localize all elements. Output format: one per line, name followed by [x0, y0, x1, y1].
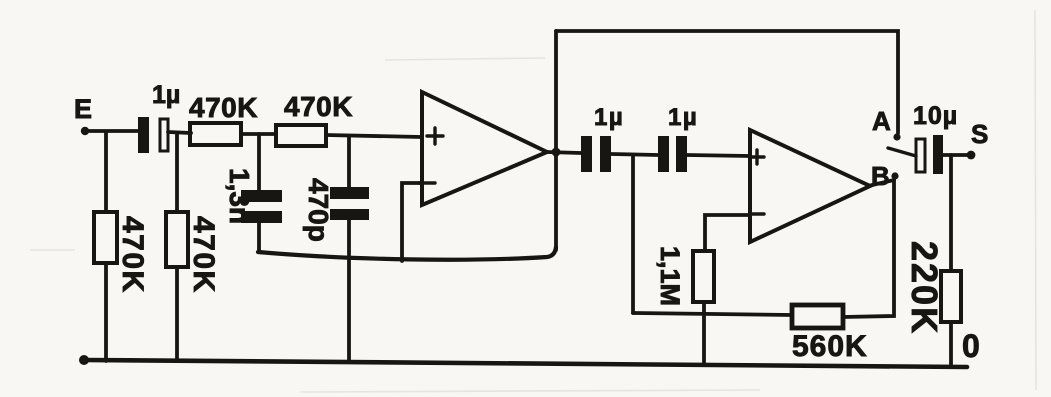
capacitor C5 1u — [658, 136, 687, 172]
svg-text:S: S — [971, 119, 988, 149]
label 220K for R7 (rotated) — [904, 241, 945, 335]
label 470K for R3 — [189, 92, 258, 123]
svg-text:1,1M: 1,1M — [655, 246, 685, 306]
wire U2 output to node B — [868, 180, 894, 186]
node B — [891, 172, 898, 179]
wire R7 to ground rail — [949, 322, 953, 366]
label 10u for C6 — [913, 102, 958, 130]
label 470p for C3 (rotated) — [303, 178, 334, 242]
label 470K for R4 — [284, 91, 353, 122]
wire junction down to R1 — [104, 132, 108, 212]
ground rail — [84, 360, 967, 367]
wire junction down to feedback line — [631, 155, 635, 313]
label 470K for R1 (rotated) — [116, 216, 149, 294]
svg-text:1µ: 1µ — [668, 104, 698, 131]
switch lever S1 — [888, 148, 916, 156]
capacitor C1 1u (input electrolytic) — [138, 117, 168, 153]
capacitor C3 470p — [330, 187, 369, 220]
wire C2 to feedback line — [257, 223, 261, 252]
node U1 output — [552, 148, 561, 157]
wire C1 to R3, junction at x=177 — [168, 132, 191, 133]
svg-text:B: B — [871, 161, 890, 191]
wire junction down to R2 — [175, 133, 179, 212]
wire R4 to op-amp U1 + input, junction at x=349 — [326, 135, 422, 137]
wire junction down to C3 — [347, 136, 351, 187]
wire C5 to op-amp U2 + input — [687, 155, 750, 156]
resistor R3 470K (first horizontal) — [190, 123, 241, 145]
svg-text:220K: 220K — [904, 241, 945, 335]
wire junction down to C2 — [257, 134, 261, 190]
wire R2 to ground rail — [175, 267, 179, 361]
wire C4 to C5, junction at x=633 — [611, 154, 658, 155]
resistor R6 560K (feedback) — [792, 305, 843, 328]
svg-text:470K: 470K — [116, 216, 149, 294]
svg-text:A: A — [872, 106, 891, 136]
wire feedback node down to ground rail — [702, 314, 706, 363]
wire U1 output riser (feedback line up to output node and top rail) — [554, 31, 558, 250]
resistor R1 470K (vertical left) — [94, 212, 117, 263]
wire R3 to R4, junction at x=258 — [241, 132, 276, 136]
wire feedback line left segment to C4/C5 junction — [633, 313, 792, 315]
node A — [893, 133, 900, 140]
label 1,3n for C2 (rotated) — [224, 168, 255, 224]
wire top rail to switch point A — [556, 31, 898, 133]
svg-text:E: E — [74, 94, 92, 124]
op-amp U2 — [750, 130, 870, 242]
node E (input terminal) — [81, 127, 89, 135]
wire U2 minus input to R5 — [705, 215, 750, 251]
label 1u for C4 — [594, 104, 624, 131]
wire U1 feedback: minus input to feedback line — [402, 183, 422, 261]
wire E to C1 — [87, 129, 139, 133]
label 1,1M for R5 (rotated) — [655, 246, 685, 306]
wire R1 to ground rail — [104, 263, 108, 361]
svg-text:470K: 470K — [284, 91, 353, 122]
node S (output terminal) — [967, 151, 976, 160]
label 1u for C1 — [152, 81, 180, 109]
svg-text:10µ: 10µ — [913, 102, 958, 130]
svg-text:560K: 560K — [792, 330, 868, 363]
svg-text:1,3n: 1,3n — [224, 168, 255, 224]
label 470K for R2 (rotated) — [187, 216, 220, 294]
svg-text:470p: 470p — [303, 178, 334, 242]
label B — [871, 161, 890, 191]
wire R6 to U2 output riser — [843, 180, 894, 317]
label A — [872, 106, 891, 136]
label 560K for R6 — [792, 330, 868, 363]
label E — [74, 94, 92, 124]
resistor R5 1,1M (vertical) — [693, 251, 714, 302]
label S — [971, 119, 988, 149]
svg-text:0: 0 — [962, 328, 980, 364]
svg-text:470K: 470K — [189, 92, 258, 123]
wire C6 to S terminal, junction at x=951 — [943, 153, 969, 157]
wire R5 to feedback node — [702, 302, 706, 314]
wire feedback line under U1 — [258, 247, 556, 260]
capacitor C6 10u (output electrolytic) — [916, 135, 943, 174]
capacitor C4 1u — [581, 136, 611, 172]
svg-text:470K: 470K — [187, 216, 220, 294]
node ground rail left terminal — [79, 355, 89, 365]
resistor R2 470K (vertical second) — [166, 212, 188, 267]
label 1u for C5 — [668, 104, 698, 131]
svg-text:1µ: 1µ — [594, 104, 624, 131]
wire U1 output to C4 — [547, 152, 581, 153]
capacitor C2 1,3n — [241, 190, 282, 223]
label 0 (ground terminal) — [962, 328, 980, 364]
resistor R7 220K (vertical output) — [941, 271, 961, 322]
resistor R4 470K (second horizontal) — [276, 125, 326, 146]
svg-text:1µ: 1µ — [152, 81, 180, 109]
wire junction down to R7 — [949, 155, 953, 271]
wire C3 down to ground rail — [347, 220, 351, 360]
op-amp U1 — [419, 92, 547, 205]
